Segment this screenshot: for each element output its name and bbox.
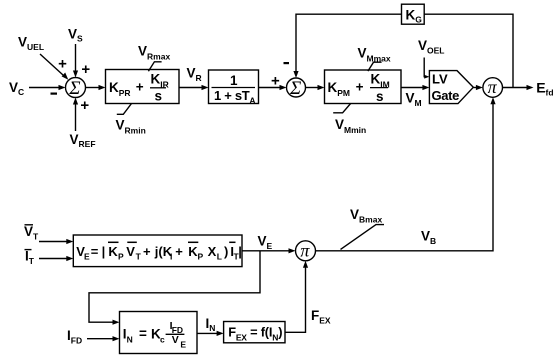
wire V_REF vertical up into S1 [75,104,77,131]
svg-text:LV: LV [432,72,448,87]
arrowhead IFD into IN block [113,336,120,341]
svg-text:V: V [172,334,179,346]
svg-text:N: N [127,334,133,344]
svg-text:Gate: Gate [432,88,460,103]
sign minus KG into S2 [284,62,290,64]
svg-text:s: s [376,89,384,104]
block IN equation [120,312,198,354]
multiplier P2 circle [296,241,316,261]
arrowhead branch into IN block [113,320,120,325]
svg-text:|: | [102,244,106,259]
VMmax limit mark [368,62,382,71]
block KG [402,4,425,24]
svg-text:I: I [170,252,172,262]
svg-text:+: + [143,244,151,259]
svg-text:+: + [175,244,183,259]
block VE equation [73,235,242,267]
wire FEX up into P2 [285,266,306,333]
arrowhead FEX into P2 bottom [303,261,308,268]
arrowhead into P1 [476,85,483,90]
wire VT into VE block [39,241,67,243]
svg-text:): ) [224,244,228,259]
svg-text:K: K [108,244,118,259]
svg-text:=: = [139,326,147,341]
arrowhead VC into S1 [59,85,66,90]
multiplier P1 circle [483,78,503,98]
arrowhead KG into S2 top [293,71,298,78]
arrowhead IT into VE block [66,256,73,261]
wire S1 to PI block [86,87,100,89]
svg-text:L: L [217,252,222,262]
wire P1 to Efd [503,87,528,89]
arrowhead VOEL into LV gate [424,75,429,79]
arrowhead into FEX block [217,331,224,336]
arrowhead VT into VE block [66,239,73,244]
arrowhead Efd output [527,85,534,90]
summer S1 circle [66,78,86,98]
text VE equation [76,244,242,262]
svg-text:s: s [155,89,163,104]
arrowhead VB into P1 bottom [490,97,495,104]
arrowhead VREF into S1 [73,98,78,105]
svg-text:+: + [81,61,90,78]
summer S2 circle [287,78,306,97]
arrowhead VUEL into S1 [62,73,69,80]
svg-text:1: 1 [230,73,238,88]
svg-text:|: | [238,244,242,259]
VRmax limit mark [148,62,161,72]
arrowhead into TA block [202,85,209,90]
svg-text:E: E [84,252,90,262]
wire V_C to summer S1 [29,87,59,89]
svg-text:π: π [300,240,310,260]
wire LV gate to multiplier P1 [473,87,477,89]
arrowhead VE into P2 [289,248,296,253]
wire KPM block to LV gate [401,87,423,89]
wire VE branch down-left to IN block [89,251,260,322]
svg-text:1 + sTA: 1 + sTA [214,88,255,106]
block FEX [224,322,285,343]
svg-text:+: + [271,73,280,90]
svg-text:=: = [91,244,99,259]
arrowhead VS into S1 [73,71,78,78]
wire IT into VE block [39,258,67,260]
svg-text:T: T [136,252,142,262]
overbar KP1 in VE equation [108,241,119,243]
svg-text:E: E [180,340,186,350]
arrowhead into S2 [280,85,287,90]
arrowhead into KPM block [318,85,325,90]
wire KG feedback to S2 [296,14,402,72]
wire PI block to TA block [179,87,202,89]
wire V_UEL diagonal into S1 [40,54,63,75]
svg-text:+: + [136,80,144,95]
svg-text:Σ: Σ [289,78,301,99]
wire V_S vertical into S1 [75,44,77,71]
svg-text:P: P [118,252,124,262]
wire IN block to FEX block [197,332,218,334]
wire Efd tap up to KG [424,14,513,87]
wire P2 output to P1 (VB path) [316,102,494,251]
block KPM + KIM/s [325,70,402,104]
sign minus VC [51,92,58,94]
overbar VT in VE equation [127,241,137,243]
overbar IT in VE equation [229,241,235,243]
VBmax limit mark [341,225,385,250]
VRmin limit mark [117,104,132,115]
block KPR + KIR/s [106,70,180,104]
svg-text:π: π [488,77,498,97]
block 1/(1+sTA) [209,70,259,104]
overbar KP2 in VE equation [188,241,198,243]
arrowhead into KPR block [99,85,106,90]
VMmin limit mark [333,104,350,113]
wire VE block to multiplier P2 [242,250,290,252]
svg-text:+: + [356,80,364,95]
svg-text:V: V [126,244,135,259]
wire S2 to KPM block [306,87,319,89]
svg-text:P: P [198,252,204,262]
wire V_OEL elbow into LV gate [424,58,425,77]
LV gate polygon [429,71,473,104]
wire IFD into IN block [87,338,114,340]
arrowhead VM into LV gate [422,85,429,90]
svg-text:X: X [208,244,217,259]
svg-text:Σ: Σ [68,78,80,99]
wire TA block to summer S2 [259,87,281,89]
svg-text:+: + [80,97,89,114]
svg-text:c: c [160,334,165,344]
svg-text:+: + [58,56,67,73]
